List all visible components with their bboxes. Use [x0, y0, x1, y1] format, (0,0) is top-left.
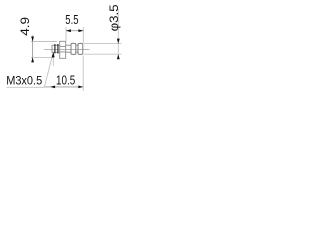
leader arrow: [52, 52, 55, 58]
dim phi3.5: dimension line: [117, 9, 119, 58]
thread M3 body: [52, 45, 60, 53]
barb ring 1: [71, 43, 76, 54]
dim 4.9: arrows: [31, 37, 34, 42]
svg-text:φ3.5: φ3.5: [107, 4, 121, 31]
dim 5.5: extension lines: [66, 27, 83, 43]
svg-text:4.9: 4.9: [18, 17, 32, 36]
svg-text:5.5: 5.5: [65, 12, 78, 27]
thread ticks: [55, 44, 58, 53]
dim 4.9: dimension line: [32, 36, 34, 62]
svg-text:M3x0.5: M3x0.5: [6, 75, 42, 87]
dim 5.5: dimension line: [66, 30, 83, 32]
centerline: [44, 49, 90, 51]
svg-text:10.5: 10.5: [56, 72, 75, 87]
barb ring 2: [78, 43, 83, 54]
dim 10.5: arrows: [50, 86, 55, 89]
leader M3x0.5: [7, 53, 54, 88]
dim 4.9: extension lines: [31, 42, 57, 58]
tube between hex and ring1: [66, 45, 78, 52]
dim phi3.5: arrows (outside): [117, 39, 120, 44]
dim 10.5: dimension line: [44, 86, 83, 88]
hex flange: [60, 41, 66, 58]
dim phi3.5: extension lines: [84, 44, 122, 55]
dim 5.5: arrows: [66, 29, 71, 32]
dim 10.5: extension lines: [53, 56, 83, 92]
